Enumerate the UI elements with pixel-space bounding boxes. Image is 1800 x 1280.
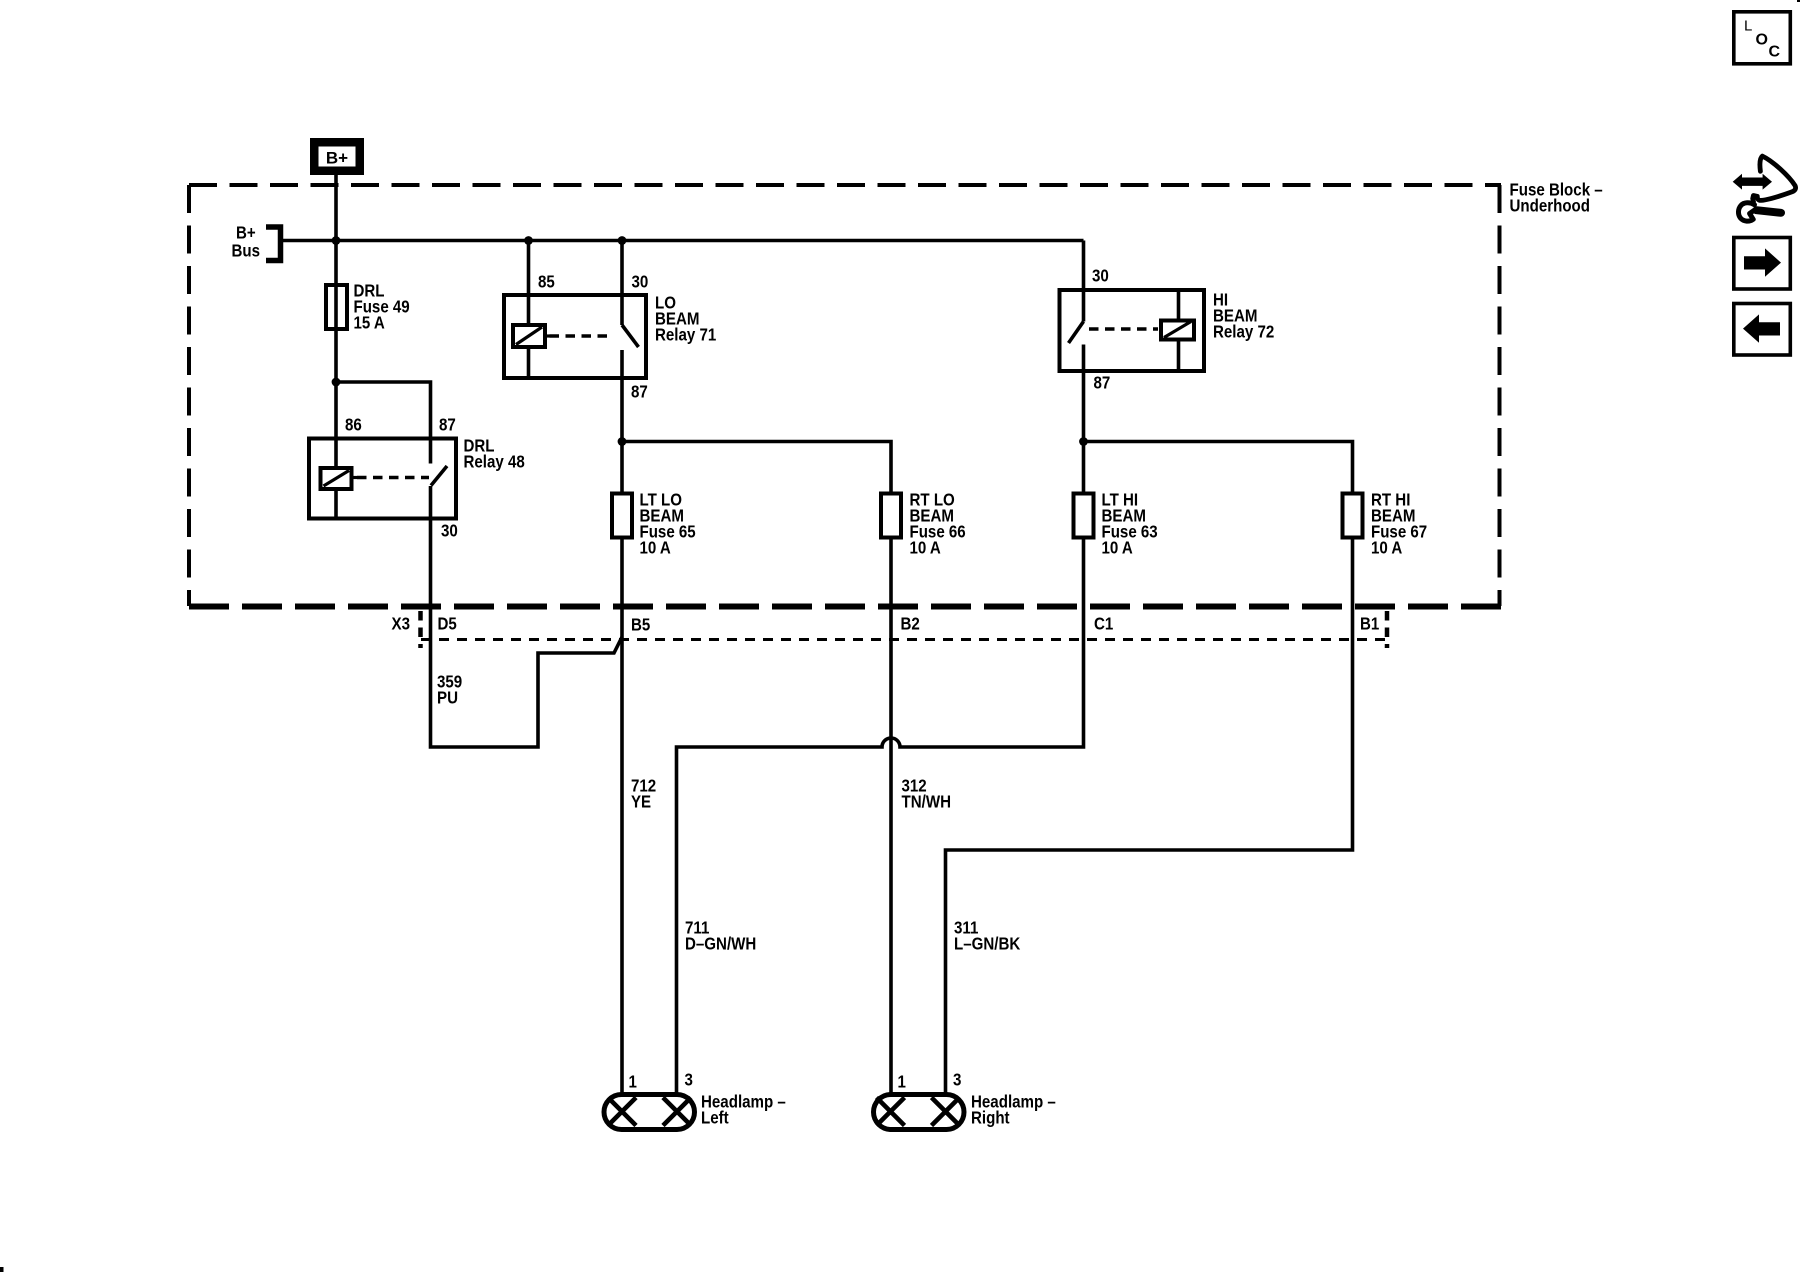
lamp element X pin 3 side xyxy=(932,1098,960,1126)
wire B+ down through Fuse 49 to DRL relay pin 86 xyxy=(334,175,338,439)
svg-text:Left: Left xyxy=(701,1107,729,1127)
page corner mark top right xyxy=(1797,0,1800,2)
svg-text:30: 30 xyxy=(1092,265,1109,285)
B+ Bus bracket symbol xyxy=(266,227,281,261)
svg-text:B2: B2 xyxy=(901,613,921,633)
fuse DRL Fuse 49 15A xyxy=(326,285,347,329)
junction node relay71 output tee xyxy=(618,437,627,446)
svg-text:L–GN/BK: L–GN/BK xyxy=(954,933,1021,953)
wire 712 YE from fuse 65 through X3-B5 to headlamp left pin 1 xyxy=(620,538,624,1095)
DRL relay actuation dashed link xyxy=(357,476,429,480)
svg-text:X3: X3 xyxy=(392,613,411,633)
wire relay 71 pin 85 from bus xyxy=(527,241,531,296)
fuse LT LO BEAM Fuse 65 10A xyxy=(612,494,632,538)
svg-text:30: 30 xyxy=(632,271,649,291)
relay 72 coil pin line xyxy=(1177,290,1181,371)
next-page right arrow box icon xyxy=(1734,238,1791,290)
wire relay 72 pin 87 down to LT HI fuse 63 xyxy=(1082,371,1086,494)
svg-text:YE: YE xyxy=(631,791,651,811)
connector X3 left separator xyxy=(418,611,423,648)
svg-text:Relay 72: Relay 72 xyxy=(1213,321,1275,341)
wire relay 72 pin 30 from bus xyxy=(1082,241,1086,291)
relay HI BEAM Relay 72 box xyxy=(1060,290,1205,371)
wire branch to DRL relay pin 87 xyxy=(336,382,431,439)
B+ power terminal box xyxy=(310,138,364,175)
B+ bus wire to LO/HI beam relays xyxy=(283,239,1084,243)
svg-text:B+: B+ xyxy=(236,222,256,242)
svg-text:15 A: 15 A xyxy=(354,312,386,332)
svg-text:Bus: Bus xyxy=(232,240,261,260)
relay LO BEAM Relay 71 box xyxy=(504,295,646,378)
svg-text:L: L xyxy=(1744,18,1752,35)
LOC navigation box icon xyxy=(1734,12,1791,64)
svg-text:10 A: 10 A xyxy=(640,537,672,557)
wire 711 D-GN/WH from fuse 63 via X3-C1, across with hop over 312, down to headlamp left pin 3 xyxy=(677,538,1084,1095)
svg-text:Underhood: Underhood xyxy=(1510,195,1591,215)
svg-text:TN/WH: TN/WH xyxy=(902,791,952,811)
previous-page left arrow box icon xyxy=(1734,304,1791,356)
relay 71 actuation dashed link xyxy=(550,334,613,338)
wire relay 71 pin 87 down to LT LO fuse 65 xyxy=(620,378,624,493)
svg-text:PU: PU xyxy=(437,687,458,707)
Fuse Block - Underhood dashed enclosure xyxy=(189,185,1501,607)
svg-text:1: 1 xyxy=(898,1071,907,1091)
lamp element X pin 3 side xyxy=(663,1098,691,1126)
junction node on bus at B+ feed xyxy=(332,236,341,245)
svg-text:Right: Right xyxy=(971,1107,1010,1127)
svg-text:D–GN/WH: D–GN/WH xyxy=(685,933,756,953)
DRL relay coil pin line xyxy=(334,439,338,519)
relay 71 switch: pin 30 stub and arm xyxy=(620,295,624,325)
relay DRL Relay 48 box xyxy=(309,439,456,519)
wire 359 PU from DRL relay pin 30 through X3-D5, jog to LT LO feed xyxy=(431,519,623,748)
svg-text:87: 87 xyxy=(439,414,456,434)
headlamp left housing xyxy=(604,1095,695,1130)
page corner mark bottom left xyxy=(0,1267,4,1272)
relay 72 actuation dashed link xyxy=(1089,327,1158,331)
fuse RT LO BEAM Fuse 66 10A xyxy=(881,494,901,538)
svg-text:30: 30 xyxy=(441,520,458,540)
svg-text:3: 3 xyxy=(953,1069,962,1089)
wire branch to RT LO fuse 66 xyxy=(622,442,891,494)
junction node below fuse 49 xyxy=(332,378,341,387)
junction node relay72 output tee xyxy=(1079,437,1088,446)
svg-text:Relay 71: Relay 71 xyxy=(655,324,717,344)
wire 312 TN/WH from fuse 66 through X3-B2 to headlamp right pin 1 xyxy=(889,538,893,1095)
svg-text:86: 86 xyxy=(345,414,362,434)
svg-text:B1: B1 xyxy=(1360,613,1380,633)
connector right separator at B1 xyxy=(1385,611,1390,648)
interactive-diagram squiggle icon with double arrow and wrench xyxy=(1733,156,1796,221)
svg-text:3: 3 xyxy=(685,1069,694,1089)
lamp element X pin 1 side xyxy=(608,1098,636,1126)
svg-text:C: C xyxy=(1769,44,1781,61)
relay 71 coil pin line xyxy=(527,295,531,378)
wire 311 L-GN/BK from fuse 67 through X3-B1 down and across to headlamp right pin 3 xyxy=(946,538,1353,1095)
wire branch to RT HI fuse 67 xyxy=(1084,442,1353,494)
svg-text:10 A: 10 A xyxy=(1102,537,1134,557)
DRL relay coil xyxy=(321,468,352,489)
headlamp right housing xyxy=(874,1095,965,1130)
relay 71 coil xyxy=(513,325,545,347)
relay 72 coil xyxy=(1161,321,1194,340)
wire relay 71 pin 30 from bus xyxy=(620,241,624,296)
svg-text:87: 87 xyxy=(1094,372,1111,392)
fuse LT HI BEAM Fuse 63 10A xyxy=(1074,494,1094,538)
svg-text:85: 85 xyxy=(538,271,555,291)
svg-text:D5: D5 xyxy=(438,613,458,633)
lamp element X pin 1 side xyxy=(877,1098,905,1126)
svg-text:1: 1 xyxy=(629,1071,638,1091)
relay 72 switch: pin 30 stub and arm xyxy=(1082,290,1086,322)
junction node on bus at relay 71 pin 85 xyxy=(524,236,533,245)
svg-text:87: 87 xyxy=(631,381,648,401)
DRL relay switch: pin 87 stub and movable arm to pin 30 xyxy=(429,439,433,464)
svg-text:B5: B5 xyxy=(631,614,651,634)
svg-text:C1: C1 xyxy=(1094,613,1114,633)
svg-text:B+: B+ xyxy=(326,149,348,168)
svg-text:10 A: 10 A xyxy=(910,537,942,557)
junction node on bus at relay 71 pin 30 xyxy=(618,236,627,245)
connector X3 lower dashed line xyxy=(421,638,1387,641)
svg-text:10 A: 10 A xyxy=(1371,537,1403,557)
svg-text:O: O xyxy=(1756,32,1768,49)
fuse RT HI BEAM Fuse 67 10A xyxy=(1343,494,1363,538)
svg-text:Relay 48: Relay 48 xyxy=(464,451,526,471)
